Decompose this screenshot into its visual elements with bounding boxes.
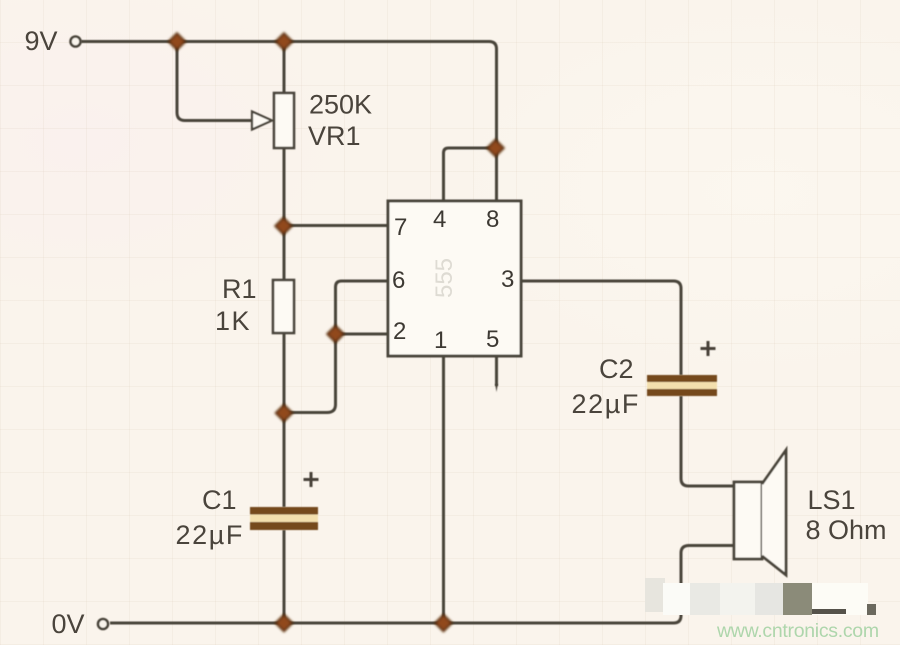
wire speaker bottom to rail: [674, 546, 735, 624]
wire pin 5 stub taper tip: [495, 384, 498, 392]
potentiometer VR1 body: [252, 93, 294, 148]
wire pin 2: [336, 333, 389, 336]
svg-text:www.cntronics.com: www.cntronics.com: [716, 620, 879, 642]
svg-text:4: 4: [433, 206, 446, 233]
wire pin 4 branch: [444, 148, 496, 201]
wire top rail from 9V terminal to pin 8 drop: [81, 42, 497, 202]
svg-text:22µF: 22µF: [572, 389, 640, 419]
svg-text:6: 6: [392, 267, 405, 294]
node 0V terminal: [98, 619, 108, 629]
junction R1 bottom: [276, 405, 292, 421]
junction top rail at pot: [276, 33, 292, 49]
resistor R1 body: [273, 280, 294, 333]
wire bottom rail: [110, 622, 674, 625]
svg-text:22µF: 22µF: [176, 520, 244, 550]
svg-text:VR1: VR1: [308, 121, 361, 151]
wire C1 top: [283, 413, 286, 507]
junction pin8/pin4: [487, 140, 503, 156]
wire pin 6: [336, 281, 389, 334]
svg-text:7: 7: [394, 214, 407, 241]
svg-text:9V: 9V: [25, 26, 58, 56]
junction pin6/pin2: [327, 326, 343, 342]
capacitor C2 plates: [647, 375, 717, 396]
svg-text:8 Ohm: 8 Ohm: [806, 515, 887, 545]
wire pin 5 stub: [495, 356, 498, 386]
svg-text:LS1: LS1: [808, 485, 856, 515]
junction top rail at VR1 branch: [169, 33, 185, 49]
wire pot top: [283, 43, 286, 93]
svg-text:0V: 0V: [52, 609, 85, 639]
wire C1 bottom: [283, 530, 286, 623]
svg-text:R1: R1: [222, 274, 257, 304]
wire R1 top: [283, 226, 286, 280]
svg-text:555: 555: [431, 258, 458, 298]
svg-text:C1: C1: [202, 485, 237, 515]
wire pin 3 to C2: [521, 281, 681, 375]
wire pin 7: [284, 224, 388, 227]
watermark censor blocks: [645, 578, 876, 615]
label C2 polarity +: [701, 341, 716, 356]
label C1 polarity +: [304, 472, 319, 487]
junction pot bottom / pin 7: [275, 218, 291, 234]
wire pin 1 down: [442, 356, 445, 623]
wire pot bottom to node: [283, 148, 286, 226]
wire node to pin2 node: [284, 334, 336, 413]
wire C2 to speaker: [681, 396, 734, 486]
speaker LS1 body: [734, 450, 786, 575]
junction bottom rail C1: [276, 615, 292, 631]
capacitor C1 plates: [250, 507, 318, 530]
svg-text:1: 1: [434, 327, 447, 354]
svg-text:1K: 1K: [215, 306, 251, 336]
svg-text:5: 5: [486, 326, 499, 353]
node 9V terminal: [71, 37, 81, 47]
svg-text:2: 2: [393, 318, 406, 345]
wire VR1 wiper branch: [177, 43, 252, 121]
svg-text:8: 8: [486, 206, 499, 233]
wire R1 bottom to node: [283, 333, 286, 413]
svg-text:250K: 250K: [309, 90, 372, 120]
svg-text:C2: C2: [599, 354, 634, 384]
junction bottom rail pin1: [435, 615, 451, 631]
svg-text:3: 3: [501, 266, 514, 293]
IC U1 555 timer body: [388, 201, 521, 356]
